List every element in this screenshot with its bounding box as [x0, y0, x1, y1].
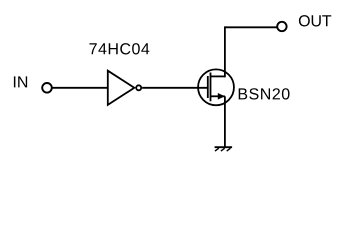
- node IN label: [14, 76, 27, 87]
- ground tooth 1: [215, 148, 219, 151]
- transistor Q1 gate bar: [207, 76, 209, 98]
- transistor Q1 source connection: [211, 95, 225, 97]
- inverter U1 output bubble: [136, 85, 141, 90]
- wire drain up: [224, 26, 226, 77]
- transistor Q1 channel bar: [210, 73, 212, 102]
- node OUT label: [299, 15, 331, 26]
- transistor Q1 envelope circle: [198, 69, 234, 105]
- ground tooth 3: [227, 148, 231, 151]
- inverter U1 triangle: [108, 71, 135, 105]
- label 74HC04: [90, 43, 150, 54]
- label BSN20: [239, 88, 290, 99]
- wire inverter output to gate of Q1: [142, 87, 208, 89]
- transistor Q1 source arrow: [218, 93, 225, 100]
- ground bar: [215, 146, 233, 148]
- terminal IN: [42, 83, 52, 93]
- wire IN terminal to inverter input: [52, 87, 108, 89]
- wire to OUT terminal: [225, 26, 278, 28]
- transistor Q1 drain connection: [211, 75, 225, 77]
- ground tooth 2: [221, 148, 225, 151]
- terminal OUT: [277, 22, 286, 31]
- wire source down to ground: [224, 96, 226, 147]
